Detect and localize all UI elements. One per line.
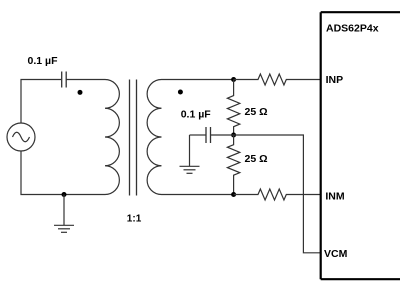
- ground G2: [180, 135, 200, 173]
- svg-text:ADS62P4x: ADS62P4x: [326, 23, 379, 35]
- transformer core lines: [129, 80, 131, 196]
- svg-text:0.1 µF: 0.1 µF: [28, 55, 59, 67]
- svg-text:INM: INM: [325, 191, 345, 203]
- node C dot (mid): [231, 133, 236, 138]
- wire AC bottom to ground rail: [21, 151, 105, 195]
- node B dot (bottom): [231, 192, 236, 197]
- resistor R1 25 ohm (vertical top): [227, 80, 239, 136]
- node A dot (top): [231, 77, 236, 82]
- resistor R4 series INM: [234, 189, 320, 200]
- phase dot primary: [78, 90, 83, 95]
- wire secondary top to node A: [162, 79, 234, 81]
- svg-text:INP: INP: [326, 74, 344, 86]
- wire top-left from source to C1 left plate: [21, 80, 61, 124]
- svg-text:1:1: 1:1: [127, 214, 142, 225]
- resistor R2 25 ohm (vertical bottom): [227, 135, 239, 195]
- phase dot secondary: [178, 90, 183, 95]
- wire C2 right plate to node C: [211, 134, 234, 136]
- transformer T1 secondary winding: [147, 80, 161, 195]
- svg-text:25 Ω: 25 Ω: [245, 153, 268, 165]
- resistor R3 series INP: [234, 74, 320, 85]
- svg-text:VCM: VCM: [324, 248, 348, 260]
- node junction dot bottom-left: [62, 192, 67, 197]
- capacitor C2: [206, 127, 211, 143]
- IC U1 box ADS62P4x: [321, 12, 400, 279]
- svg-text:25 Ω: 25 Ω: [245, 106, 268, 118]
- ground G1: [54, 195, 74, 233]
- wire C2 left plate to ground stem: [190, 134, 206, 136]
- svg-text:0.1 µF: 0.1 µF: [181, 109, 212, 121]
- capacitor C1: [62, 72, 66, 88]
- wire C1 right plate to primary top: [66, 79, 105, 81]
- AC source V1: [7, 123, 35, 151]
- wire secondary bottom to node B: [162, 194, 234, 196]
- wire VCM from node C: [234, 135, 320, 253]
- transformer T1 primary winding: [105, 80, 119, 195]
